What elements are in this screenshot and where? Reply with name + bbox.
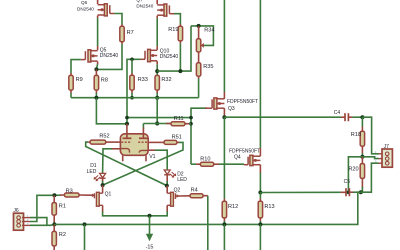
- connector J7 pin 3 circle: [385, 161, 389, 165]
- wire Q6 source to Q5 drain: [97, 16, 99, 19]
- junction D2 / Q2 drain / R52 diagonal: [165, 184, 169, 188]
- wire R52 right to grid 1: [106, 141, 121, 143]
- connector J6 pin 1 circle: [17, 216, 21, 220]
- LED D1: [102, 149, 104, 174]
- svg-text:R3: R3: [66, 188, 73, 194]
- svg-text:DN2540: DN2540: [77, 7, 94, 12]
- resistor R8: [94, 75, 98, 90]
- svg-text:J7: J7: [384, 144, 390, 150]
- wire Q1 drain to D1 node: [102, 185, 104, 193]
- junction R34 top / wiper: [197, 24, 201, 28]
- resistor R12 feed: [223, 117, 225, 199]
- svg-text:R7: R7: [127, 30, 134, 36]
- junction anode 1 / Q10 gate / R11 line: [125, 122, 129, 126]
- wire R18 bottom to node: [361, 146, 363, 153]
- wire C4 right to node: [352, 116, 362, 118]
- connector J6 pin 3 circle: [17, 224, 21, 228]
- power symbol -15 supply arrow: [149, 216, 151, 234]
- transistor Q4 FDPF5N50FT: [250, 155, 253, 165]
- svg-text:LED: LED: [87, 169, 97, 175]
- transistor Q5 DN2540: [88, 50, 91, 62]
- capacitor C5: [341, 191, 346, 193]
- supply wire vertical 1 top: [223, 0, 225, 92]
- junction R1 / R2 / rail: [52, 222, 56, 226]
- resistor R4: [190, 194, 203, 198]
- wire R4 left to Q2 gate: [179, 195, 190, 197]
- connector J6 pin 1 stub: [22, 217, 30, 219]
- svg-text:J6: J6: [13, 208, 19, 214]
- svg-text:R33: R33: [138, 77, 148, 83]
- bottom rail of CCS stacks: [71, 97, 199, 99]
- connector J7 pin 1 circle: [385, 152, 389, 156]
- wire R9 bottom to rail: [70, 90, 72, 93]
- svg-text:R13: R13: [264, 204, 274, 210]
- junction anode 1 line tee: [125, 116, 129, 120]
- svg-text:Q7: Q7: [136, 0, 143, 3]
- wire D2 to node: [166, 175, 168, 182]
- junction C4 / R18 / J7 pin1: [360, 115, 364, 119]
- wire R4 right down to bottom edge: [203, 195, 208, 197]
- svg-text:R51: R51: [172, 134, 182, 140]
- transistor Q6 DN2540: [104, 4, 107, 16]
- wire R11 right hook: [185, 123, 189, 125]
- svg-text:R8: R8: [101, 77, 108, 83]
- resistor R1 bottom lead: [53, 215, 55, 224]
- svg-text:R2: R2: [59, 232, 66, 238]
- svg-text:DN2540: DN2540: [100, 53, 119, 59]
- wire Q6 drain to top edge: [97, 0, 99, 4]
- wire R33 top tap: [131, 59, 133, 73]
- svg-text:LED: LED: [177, 177, 187, 183]
- junction C5 right / R20 / rail / J7 pin3: [359, 190, 363, 194]
- resistor R10: [200, 162, 214, 166]
- svg-text:R12: R12: [228, 204, 238, 210]
- wire R10 feed: [191, 163, 196, 165]
- junction Q5 source / R7 / R8: [94, 67, 98, 71]
- svg-text:R9: R9: [76, 77, 83, 83]
- tube V1 anode 1 stem and plate: [126, 124, 128, 139]
- wire Q3 source to C4: [224, 116, 341, 118]
- connector J6 pin 2 circle: [17, 220, 21, 224]
- tube V1 grid 1 (dashed): [121, 141, 131, 143]
- wire drop to bottom edge at x84: [84, 224, 86, 250]
- wire Q3 gate net down to R10: [191, 108, 207, 164]
- svg-text:Q6: Q6: [81, 0, 88, 5]
- wire node left/down to C5 line: [348, 157, 362, 193]
- wire Q2 source to tail: [166, 205, 168, 212]
- wire R12 bottom: [223, 218, 225, 221]
- svg-text:R20: R20: [348, 166, 358, 172]
- wire R34 top node: [191, 26, 213, 46]
- resistor R52: [90, 140, 106, 144]
- wire rail down to tube anode 2: [156, 98, 158, 124]
- junction R1 top / R3 left: [52, 193, 56, 197]
- resistor R12: [222, 201, 226, 218]
- connector J6 pin 3 stub: [22, 224, 30, 226]
- wire node to J7 pin 2: [362, 157, 378, 159]
- wire anode net to R11-right line: [127, 117, 191, 119]
- junction D1 / Q1 drain / R51 diagonal: [101, 183, 105, 187]
- resistor R51: [164, 140, 177, 144]
- svg-text:FDPF5N50FT: FDPF5N50FT: [227, 99, 258, 105]
- svg-text:R18: R18: [351, 132, 361, 138]
- svg-text:Q3: Q3: [228, 106, 235, 112]
- junction R13 / rail: [258, 222, 262, 226]
- wire R10 right to Q4 gate: [214, 163, 219, 165]
- resistor R3: [64, 193, 79, 197]
- resistor R33: [130, 75, 134, 90]
- wire Q4 source down: [259, 165, 261, 174]
- wire C5 node to J7 pin 3: [361, 163, 379, 192]
- resistor R18: [360, 131, 364, 146]
- junction Q4 source / R13 / C5 line: [258, 191, 262, 195]
- junction R12 / rail: [222, 222, 226, 226]
- tube V1 grid 2 (dashed): [138, 141, 148, 143]
- wire Q5 gate to R9 top: [71, 60, 81, 74]
- supply wire vertical 2 top: [259, 0, 261, 148]
- potentiometer R34: [196, 39, 200, 52]
- svg-text:DN2540: DN2540: [160, 54, 179, 60]
- mid rail Q10 source to R34 top branch: [157, 26, 191, 71]
- resistor R19: [178, 26, 182, 41]
- wire R3 left node: [54, 194, 60, 196]
- wire Q2 drain to D2 node: [166, 186, 168, 194]
- svg-text:R10: R10: [200, 157, 210, 163]
- junction R33 / bottom mid rail: [130, 96, 134, 100]
- wire R20 top lead: [361, 157, 363, 164]
- junction Q10 source / mid rail: [155, 69, 159, 73]
- wire Q3 source to output node: [223, 108, 225, 117]
- wire R8 bottom to rail: [95, 90, 97, 93]
- wire R51 right down and diagonal to D1 node: [177, 141, 179, 143]
- junction rail / drop wire: [83, 222, 87, 226]
- wire rail down to tube anode 1: [96, 98, 127, 124]
- wire Q4 drain: [259, 148, 261, 156]
- junction anode 2 / R11 left: [155, 122, 159, 126]
- transistor Q3 FDPF5N50FT: [214, 98, 217, 109]
- wire R7 bottom to Q5 source node: [121, 42, 123, 44]
- capacitor C4: [341, 116, 345, 118]
- junction tail node: [148, 214, 152, 218]
- transistor Q1: [96, 192, 99, 206]
- resistor R20: [360, 164, 364, 179]
- svg-text:R32: R32: [161, 77, 171, 83]
- svg-text:Q1: Q1: [105, 191, 112, 197]
- wire R12 node to bottom edge: [223, 224, 225, 250]
- connector J7 pin 1 stub: [379, 153, 383, 155]
- wire Q4 source line to C5: [260, 191, 340, 193]
- svg-text:Q2: Q2: [174, 187, 181, 193]
- wire R34 to R35: [198, 52, 200, 63]
- svg-text:R35: R35: [203, 64, 213, 70]
- wire J6 pin 2 up to R1/R3 node: [30, 195, 54, 221]
- svg-text:Q4: Q4: [234, 154, 241, 160]
- junction Q3 source / R12 / C4: [222, 115, 226, 119]
- connector J7 pin 3 stub: [379, 162, 383, 164]
- wire R13 node to bottom edge: [259, 224, 261, 250]
- svg-text:DN2540: DN2540: [136, 4, 153, 9]
- connector J6: [14, 213, 24, 230]
- wire Q1 source to tail: [102, 205, 104, 212]
- wire cathode 1 to D1 top: [112, 148, 120, 150]
- wire J6 pin 3 to ground rail: [30, 223, 54, 226]
- junction R32 / rail / anode 2 feed: [155, 96, 159, 100]
- wire Q10 source down to R32: [156, 61, 158, 64]
- resistor R2: [52, 231, 56, 246]
- wire tube grid 2 to R51: [148, 141, 164, 143]
- LED D2: [164, 170, 170, 174]
- connector J7 pin 2 stub: [379, 158, 383, 160]
- resistor R11: [171, 122, 185, 126]
- wire cathode 2 to D2 top: [148, 149, 155, 151]
- wire D1 to node: [102, 178, 104, 182]
- resistor R35: [196, 63, 200, 76]
- wire Q5 source down to R8: [97, 62, 99, 65]
- junction gate net / anode line: [189, 116, 193, 120]
- svg-text:R11: R11: [174, 116, 184, 122]
- junction Q10 gate / R33: [130, 58, 134, 62]
- wire R13 bottom: [259, 218, 261, 221]
- resistor R13 feed: [259, 193, 261, 199]
- wire R35 bottom to rail: [198, 76, 200, 78]
- wire Q7 gate to R19 top: [174, 14, 180, 25]
- transistor Q10 DN2540: [148, 49, 151, 61]
- svg-text:R4: R4: [191, 187, 198, 193]
- svg-text:R52: R52: [99, 133, 109, 139]
- transistor Q2: [171, 192, 174, 206]
- junction R18 / R20 / J7 pin2: [360, 155, 364, 159]
- wire Q3 drain: [223, 92, 225, 99]
- resistor R2 top lead: [53, 224, 55, 231]
- tube V1 cathode 2: [139, 150, 147, 152]
- wire node to J7 pin 1: [362, 117, 378, 154]
- wire Q10 gate left and down to tube anode 1 node: [127, 59, 140, 124]
- wire J6 pin 1 jog: [30, 218, 47, 226]
- wire R52 left down and diagonal to D2 node: [88, 141, 90, 143]
- wire Q6 gate to R7 top: [114, 14, 122, 25]
- resistor R1: [52, 203, 56, 216]
- vacuum tube V1 envelope: [120, 134, 148, 156]
- wire R3 right to Q1 gate: [79, 194, 91, 196]
- tube V1 anode 2 stem and plate: [142, 124, 144, 130]
- wire node down to R18: [361, 117, 363, 127]
- bottom ground rail: [54, 192, 360, 224]
- junction R19 bottom / mid rail: [178, 69, 182, 73]
- tube V1 heater pin 2: [145, 155, 147, 161]
- svg-text:V1: V1: [149, 154, 155, 160]
- wire R33 bottom to rail: [131, 90, 133, 93]
- resistor R13: [258, 201, 262, 218]
- transistor Q7 DN2540: [164, 4, 167, 16]
- junction feedback / C5 left: [347, 191, 351, 195]
- svg-text:-15: -15: [146, 244, 154, 250]
- resistor R1 top lead: [53, 195, 55, 202]
- wire R32 bottom to rail: [156, 90, 158, 93]
- svg-text:R19: R19: [168, 27, 178, 33]
- connector J7 pin 2 circle: [385, 157, 389, 161]
- wire Q7 drain to top edge: [156, 0, 158, 4]
- svg-text:C4: C4: [334, 110, 341, 116]
- wire Q7 source to Q10 drain: [156, 16, 158, 19]
- wire R20 bottom to C5 right node: [361, 178, 363, 188]
- resistor R9: [69, 75, 73, 90]
- wire R10 left lead: [196, 163, 200, 165]
- svg-text:C5: C5: [344, 179, 351, 185]
- tube V1 heater pin 1: [122, 155, 124, 161]
- connector J6 pin 2 stub: [22, 221, 30, 223]
- tube V1 cathode 1: [121, 149, 130, 153]
- resistor R7: [120, 26, 124, 42]
- svg-text:R1: R1: [59, 204, 66, 210]
- wire R19 bottom to mid rail: [179, 41, 181, 44]
- resistor R32: [155, 75, 159, 90]
- connector J7: [382, 149, 392, 167]
- wire anode 2 to R11: [143, 123, 170, 125]
- junction gate net / R11 right: [189, 122, 193, 126]
- resistor R2 bottom lead to edge: [53, 246, 55, 250]
- svg-text:R34: R34: [204, 28, 214, 34]
- junction R8 bottom / anode 1 feed: [94, 96, 98, 100]
